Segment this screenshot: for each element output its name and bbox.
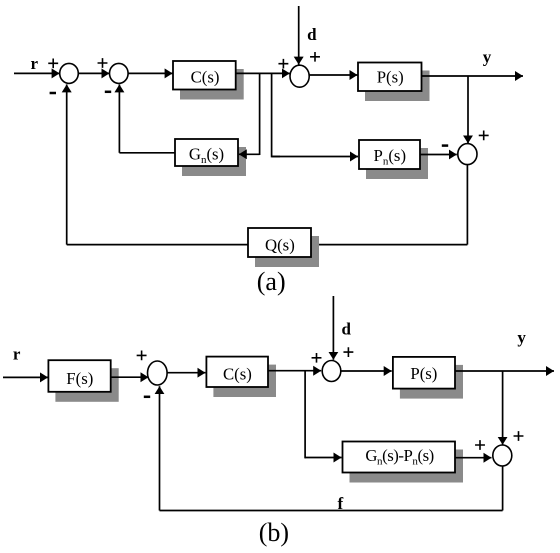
plus sign at summer S1: [48, 58, 58, 68]
summer S2b: [148, 361, 168, 385]
wire d input vertical: [298, 6, 300, 65]
wire C(s) to S3: [236, 72, 290, 74]
wire S3 to P(s): [309, 74, 357, 76]
wire tap2 vertical (u to Pn): [272, 73, 280, 156]
wire S2b to C(s)b: [167, 372, 205, 374]
wire Gn(s) output left: [119, 152, 175, 154]
wire bottom feedback (a): [67, 244, 468, 246]
block P(s) shadow: [365, 71, 430, 102]
wire S3b to P(s)b: [341, 370, 392, 372]
wire S2 to C(s): [128, 72, 173, 74]
wire tap2 to Pn(s): [272, 156, 358, 158]
block C(s)b shadow: [213, 365, 276, 397]
block F(s): [48, 360, 110, 392]
wire bottom feedback f: [160, 510, 503, 512]
svg-text:P(s): P(s): [410, 364, 437, 383]
block Pn(s) shadow: [366, 148, 428, 179]
summer S3b: [322, 361, 341, 382]
svg-text:y: y: [483, 48, 492, 67]
plus sign at summer S4: [479, 131, 489, 141]
svg-text:(a): (a): [257, 267, 286, 296]
svg-text:C(s): C(s): [191, 68, 220, 87]
block C(s)b: [206, 357, 268, 387]
wire S4 output down: [466, 165, 468, 245]
summer S3: [290, 65, 309, 87]
wire Gn-Pn to S4b: [455, 457, 492, 459]
block P(s)b shadow: [400, 365, 463, 399]
minus sign at summer S2b: [144, 396, 150, 399]
summer S1: [60, 63, 79, 83]
svg-text:C(s): C(s): [223, 364, 252, 383]
wire r input (b): [3, 376, 48, 378]
wire y tap down to S4b: [502, 371, 504, 445]
svg-text:Gn(s): Gn(s): [189, 145, 224, 167]
plus sign right at summer S4b: [514, 431, 524, 441]
block C(s) shadow: [180, 69, 244, 100]
summer S4: [458, 144, 477, 165]
svg-text:f: f: [337, 494, 343, 513]
wire into Gn(s) right side: [239, 153, 260, 155]
wire C(s)b to S3b: [268, 370, 321, 372]
plus sign left at summer S3: [278, 59, 288, 69]
block C(s): [173, 61, 236, 90]
wire y tap down to S4: [467, 76, 469, 143]
plus sign at summer S2b: [137, 351, 147, 361]
wire tap to Gn-Pn block: [305, 457, 341, 459]
plus sign right at summer S3b: [343, 347, 353, 357]
block Gn-Pn shadow: [350, 450, 464, 483]
svg-text:y: y: [517, 328, 526, 347]
wire feedback up to S2b: [159, 386, 161, 510]
svg-text:d: d: [307, 25, 317, 44]
plus sign right at summer S3: [310, 52, 320, 62]
wire P(s) to output y: [422, 75, 524, 77]
svg-text:P(s): P(s): [377, 68, 404, 87]
svg-text:d: d: [341, 320, 351, 339]
wire Gn feedback up to S2: [118, 84, 120, 152]
block Gn(s): [175, 139, 238, 166]
wire S4b output down: [502, 466, 504, 511]
wire Pn(s) to S4: [420, 154, 457, 156]
block Q(s) shadow: [255, 236, 319, 267]
wire d input vertical (b): [332, 296, 334, 360]
svg-text:F(s): F(s): [66, 369, 93, 388]
svg-text:Q(s): Q(s): [265, 236, 295, 255]
plus sign at summer S2: [98, 58, 108, 68]
svg-text:r: r: [31, 54, 39, 73]
block P(s)b: [393, 357, 455, 389]
block P(s): [358, 63, 422, 92]
block Gn-Pn: [343, 442, 456, 473]
wire r input: [14, 72, 60, 74]
minus sign at summer S2: [105, 91, 111, 94]
wire F(s) to S2b: [111, 376, 149, 378]
wire tap u down (b): [304, 371, 307, 458]
svg-text:Pn(s): Pn(s): [374, 146, 407, 168]
wire feedback up to S1: [66, 84, 68, 244]
plus sign left at summer S3b: [312, 353, 322, 363]
plus sign left at summer S4b: [475, 440, 485, 450]
svg-text:(b): (b): [259, 518, 289, 547]
wire P(s)b to output y (b): [455, 370, 554, 372]
block Gn(s) shadow: [182, 147, 246, 176]
wire tap1 vertical (u to Gn): [259, 73, 261, 155]
svg-text:Gn(s)-Pn(s): Gn(s)-Pn(s): [365, 446, 433, 468]
minus sign at summer S1: [50, 92, 56, 95]
block Q(s): [248, 228, 311, 257]
minus sign at summer S4: [442, 144, 448, 147]
block Pn(s): [359, 140, 420, 169]
summer S2: [110, 63, 129, 83]
summer S4b: [493, 445, 512, 466]
wire S1 to S2: [78, 72, 109, 74]
svg-text:r: r: [13, 344, 21, 363]
block F(s) shadow: [55, 368, 118, 402]
